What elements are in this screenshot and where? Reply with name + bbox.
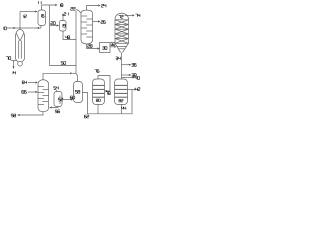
label 10 xyxy=(4,27,7,30)
wire feed arrow 66 xyxy=(28,91,36,93)
wire overhead to drum D1 xyxy=(20,11,35,13)
label 32 xyxy=(111,43,116,46)
label 38 xyxy=(132,74,137,77)
column C2 (tray column) shell xyxy=(81,10,93,44)
arrowhead 58 left xyxy=(17,114,19,116)
arrowhead stream 24 xyxy=(98,4,100,6)
label 12 xyxy=(24,15,27,18)
arrowhead into V1 side xyxy=(105,90,107,92)
vessel V1 (left reactor) shell xyxy=(93,79,105,105)
arrowhead 38 xyxy=(129,74,131,76)
wire C1 overhead riser xyxy=(19,12,21,30)
label 11 top-left xyxy=(39,1,42,4)
label 58 xyxy=(11,114,16,117)
label 66 xyxy=(22,90,27,93)
arrowhead into D1 xyxy=(35,10,37,12)
label 70 xyxy=(6,57,11,60)
label 21 xyxy=(64,13,69,16)
column C4 trays xyxy=(38,87,49,105)
label 28 xyxy=(88,45,93,48)
label 30 inside xyxy=(102,47,107,50)
label 52 inside D4 xyxy=(58,98,63,101)
column C1 (left absorber) shell xyxy=(16,29,25,59)
vessel V2 internals xyxy=(115,85,128,97)
wire C3 overhead xyxy=(125,14,133,16)
wire C3 bottoms drop xyxy=(121,53,123,79)
arrowhead stream 18 xyxy=(55,4,57,6)
label 74 xyxy=(135,14,140,17)
label 18 xyxy=(60,4,63,7)
arrowhead 64 xyxy=(36,81,38,83)
wire V1 bottom stub xyxy=(97,105,99,114)
wire branch riser x49.5 xyxy=(49,5,51,66)
column C4 (bottom-left stripper) shell xyxy=(38,80,49,112)
label 14 xyxy=(13,71,16,74)
wire into D3 top xyxy=(76,73,78,81)
arrowhead V2 side xyxy=(134,88,136,90)
wire C2 overhead xyxy=(87,6,99,11)
arrowhead C3 overhead xyxy=(132,14,134,16)
label 82 inside V2 xyxy=(119,99,123,102)
wire D3 side to bottom loop xyxy=(83,90,133,114)
label 50 xyxy=(61,62,66,65)
column C1 bottom cone xyxy=(16,59,25,62)
drum D2 xyxy=(60,21,67,32)
label 16 inside D1 xyxy=(42,14,45,17)
arrowhead V2 vent xyxy=(133,76,135,78)
wire y73 from column C4 top xyxy=(43,72,70,74)
wire side arrow 36 xyxy=(122,64,130,66)
wire D2 vent stub xyxy=(62,15,64,21)
wire C4 top to y73 xyxy=(42,73,44,79)
column C1 inner draft tube xyxy=(19,41,22,59)
vessel V2 (right reactor) shell xyxy=(115,79,128,105)
arrowhead stream 26 xyxy=(98,20,100,22)
wire C2 side draw xyxy=(93,21,99,23)
vessel V1 internals xyxy=(93,85,105,97)
label 60 xyxy=(70,96,75,99)
label 42 xyxy=(135,88,140,91)
label 19 inside D2 xyxy=(63,24,66,27)
arrowhead into C3 xyxy=(114,46,116,48)
wire stream 70 from C1 bottom xyxy=(11,60,17,62)
heat exchanger HX30 xyxy=(100,43,111,53)
label 48 xyxy=(65,36,70,39)
wire V1 top stub xyxy=(98,76,110,92)
arrowhead up D2 vent xyxy=(62,13,64,15)
wire V2 bottom stub xyxy=(121,105,123,114)
wire C4 bottoms out xyxy=(20,112,44,115)
arrowhead into D3 xyxy=(71,98,73,100)
arrowhead left on y28 xyxy=(37,27,39,29)
arrowhead into HX30 xyxy=(98,47,100,49)
column C3 (packed column) shell xyxy=(115,13,129,43)
label 80 inside V1 xyxy=(96,99,100,102)
label 56 xyxy=(55,110,60,113)
drum D4 xyxy=(54,92,62,107)
wire feed to drum D2 xyxy=(50,25,57,27)
wire D4 to C4 xyxy=(52,107,59,108)
wire feed hook 22 into C2 xyxy=(76,10,81,14)
column C1 bottom pot circle xyxy=(18,61,23,66)
wire D2 bottom run to D3 xyxy=(63,31,76,40)
wire D1 bottom stub xyxy=(40,26,42,29)
wire C2 bottoms xyxy=(87,44,98,49)
label 20 xyxy=(51,22,56,25)
arrowhead feed 10 xyxy=(13,27,15,29)
column C3 bottom cone xyxy=(115,43,129,52)
label 26 xyxy=(101,21,106,24)
arrowhead into D2 xyxy=(57,24,59,26)
arrowhead down stream 14 xyxy=(12,67,14,69)
arrowhead on y73 xyxy=(70,72,72,74)
wire feed line y28 xyxy=(7,27,41,29)
label 62 xyxy=(84,115,89,118)
wire D4 top stub xyxy=(56,90,58,92)
label 22 xyxy=(71,7,76,10)
wire HX30 to C3 xyxy=(110,46,115,48)
label 64 xyxy=(22,81,27,84)
wire D4 inner line xyxy=(59,96,61,105)
wire D4 to D3 xyxy=(62,99,71,101)
wire y65.5 recycle xyxy=(50,65,77,67)
arrowhead into C4 xyxy=(49,106,51,108)
wire V2 vent arrow xyxy=(122,77,133,79)
label 72 inside C3 top xyxy=(119,15,124,18)
wire feed arrow 64 xyxy=(28,82,36,84)
label 54 xyxy=(54,87,59,90)
label 36 xyxy=(132,63,137,66)
label 24 xyxy=(101,4,106,7)
column C1 internal funnel xyxy=(16,33,24,41)
label 44 xyxy=(121,107,126,110)
wire V2 side product xyxy=(128,89,135,91)
wire D1 top line xyxy=(42,5,56,10)
drum D1 xyxy=(38,10,46,26)
wire down to arrow 14 xyxy=(13,61,15,68)
arrowhead 66 xyxy=(36,91,38,93)
arrowhead 36 xyxy=(129,64,131,66)
wire side arrow 38 xyxy=(122,74,130,76)
label 76 xyxy=(95,70,100,73)
column C3 packing sections xyxy=(115,20,129,44)
label 58 inside D3 xyxy=(75,90,80,93)
label 78 xyxy=(106,92,111,95)
wire vertical x76 xyxy=(75,11,77,74)
label 34 xyxy=(116,57,121,60)
drum D3 (center bottom) xyxy=(74,82,83,103)
label 40 xyxy=(135,77,140,80)
column C2 trays xyxy=(81,16,93,37)
